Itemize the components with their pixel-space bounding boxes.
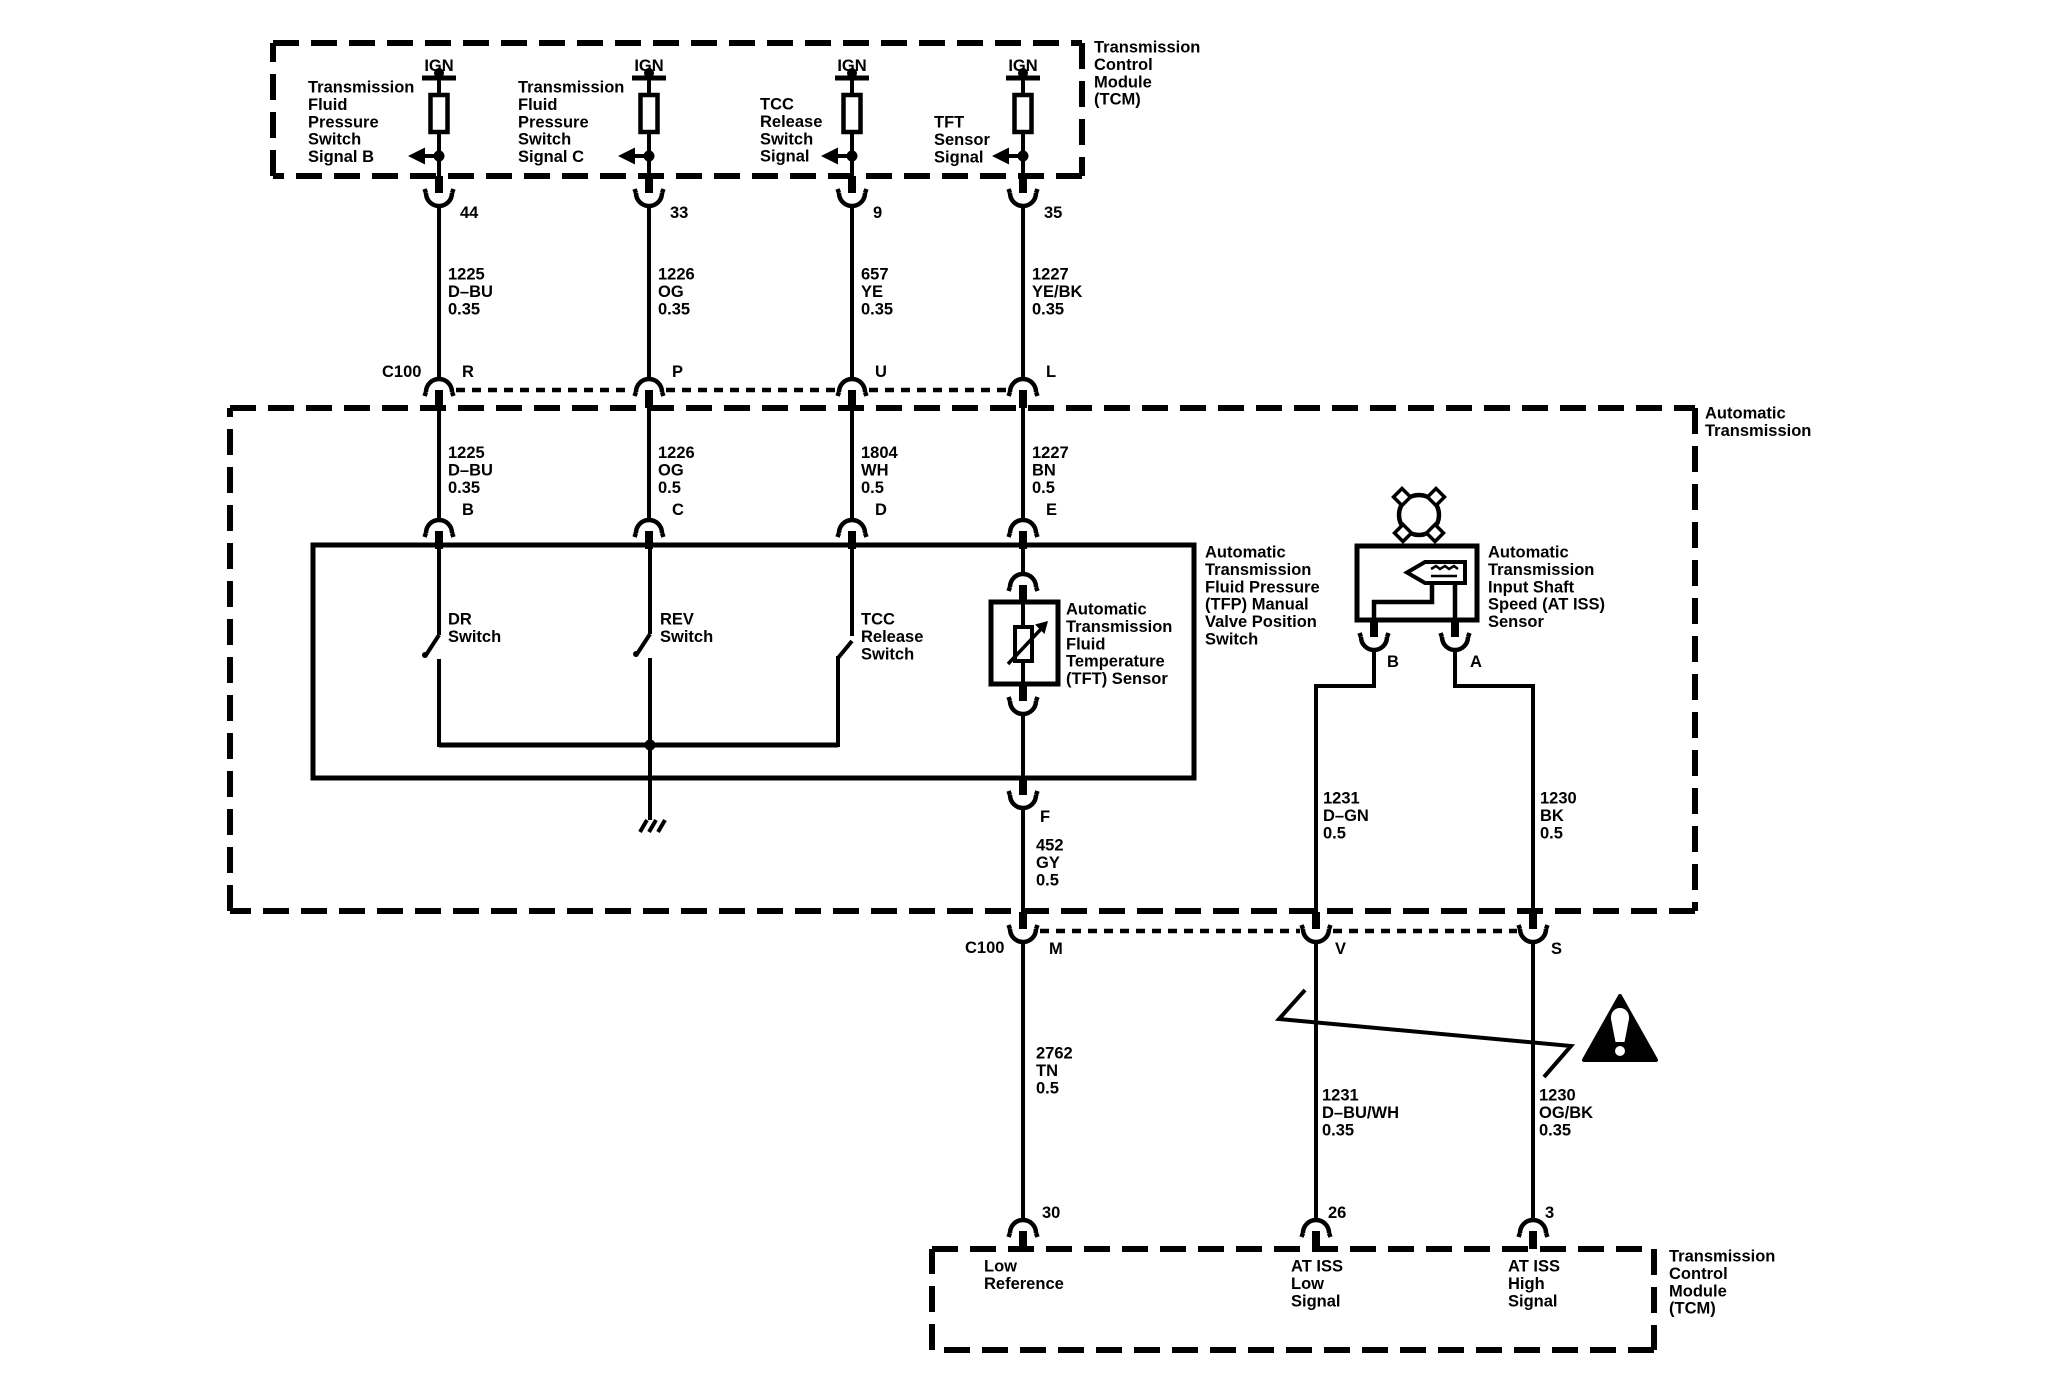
svg-text:P: P bbox=[672, 363, 683, 381]
svg-text:0.5: 0.5 bbox=[658, 479, 681, 497]
wire TCC switch to bus bbox=[836, 656, 840, 747]
svg-text:1230: 1230 bbox=[1539, 1087, 1576, 1105]
C100 harness dotted line (upper) bbox=[456, 388, 632, 393]
svg-text:0.35: 0.35 bbox=[861, 300, 893, 318]
svg-text:Control: Control bbox=[1094, 56, 1153, 74]
svg-text:Signal: Signal bbox=[934, 148, 984, 166]
resistor (pull-up, column 1) bbox=[431, 95, 448, 132]
svg-text:0.35: 0.35 bbox=[448, 479, 480, 497]
svg-text:Switch: Switch bbox=[861, 645, 914, 663]
svg-text:Switch: Switch bbox=[308, 131, 361, 149]
Transmission Control Module (TCM) box (top) bbox=[273, 43, 1082, 176]
TFT sensor lower connector bbox=[1019, 684, 1027, 701]
svg-text:GY: GY bbox=[1036, 854, 1060, 872]
svg-text:OG: OG bbox=[658, 283, 684, 301]
svg-text:Transmission: Transmission bbox=[308, 79, 414, 97]
svg-text:1231: 1231 bbox=[1323, 790, 1360, 808]
svg-text:Switch: Switch bbox=[448, 628, 501, 646]
svg-text:1225: 1225 bbox=[448, 266, 485, 284]
TFP switch signal C arrow bbox=[644, 151, 655, 162]
TFT sensor internal wire bbox=[1021, 602, 1025, 684]
REV switch bbox=[648, 547, 652, 634]
svg-text:9: 9 bbox=[873, 204, 882, 222]
wire IGN to resistor (column 4) bbox=[1021, 73, 1025, 95]
svg-text:1231: 1231 bbox=[1322, 1087, 1359, 1105]
IGN feed node (column 2) bbox=[644, 68, 654, 78]
svg-text:R: R bbox=[462, 363, 474, 381]
svg-text:A: A bbox=[1470, 653, 1482, 671]
svg-text:C100: C100 bbox=[382, 363, 421, 381]
svg-text:Signal: Signal bbox=[1291, 1292, 1341, 1310]
wire IGN to resistor (column 2) bbox=[647, 73, 651, 95]
wire C100 S to TCM pin 3 bbox=[1531, 942, 1535, 1220]
TCM pin 33 connector bbox=[645, 176, 653, 193]
IGN feed node (column 4) bbox=[1018, 68, 1028, 78]
svg-text:(TCM): (TCM) bbox=[1669, 1300, 1716, 1318]
svg-text:D–BU: D–BU bbox=[448, 283, 493, 301]
svg-text:1225: 1225 bbox=[448, 444, 485, 462]
svg-text:Sensor: Sensor bbox=[1488, 613, 1545, 631]
ground bbox=[640, 820, 665, 832]
svg-text:D: D bbox=[875, 501, 887, 519]
svg-text:Signal C: Signal C bbox=[518, 148, 584, 166]
Automatic Transmission box (dashed) bbox=[230, 408, 1695, 911]
svg-text:35: 35 bbox=[1044, 204, 1062, 222]
svg-text:AT ISS: AT ISS bbox=[1508, 1258, 1560, 1276]
twisted pair marker bbox=[1279, 990, 1571, 1077]
wire pin E to TFT sensor bbox=[1021, 547, 1025, 574]
svg-text:OG/BK: OG/BK bbox=[1539, 1104, 1593, 1122]
svg-text:Switch: Switch bbox=[1205, 631, 1258, 649]
wire pin 35 to C100 bbox=[1021, 205, 1025, 379]
TFP pin F connector bbox=[1019, 778, 1027, 795]
TFP switch signal B arrow bbox=[434, 151, 445, 162]
svg-text:YE/BK: YE/BK bbox=[1032, 283, 1083, 301]
svg-text:Module: Module bbox=[1669, 1282, 1727, 1300]
svg-text:0.5: 0.5 bbox=[1540, 824, 1563, 842]
wire C100 V to TCM pin 26 bbox=[1314, 942, 1318, 1220]
svg-text:Transmission: Transmission bbox=[1066, 618, 1172, 636]
C100 pin V connector bbox=[1312, 912, 1320, 929]
wire C100 U to pin D bbox=[850, 407, 854, 521]
TCM pin 26 connector bbox=[1303, 1220, 1329, 1233]
svg-text:Signal: Signal bbox=[1508, 1292, 1558, 1310]
svg-text:F: F bbox=[1040, 808, 1050, 826]
C100 harness dotted line (lower) bbox=[1040, 929, 1300, 934]
svg-text:Transmission: Transmission bbox=[1669, 1248, 1775, 1266]
svg-text:Transmission: Transmission bbox=[1488, 561, 1594, 579]
switch common bus wire bbox=[439, 743, 838, 748]
TFP pin C connector bbox=[636, 520, 662, 533]
svg-text:Switch: Switch bbox=[518, 131, 571, 149]
svg-text:Pressure: Pressure bbox=[308, 113, 379, 131]
svg-text:1226: 1226 bbox=[658, 266, 695, 284]
svg-text:Module: Module bbox=[1094, 73, 1152, 91]
C100 pin S connector bbox=[1529, 912, 1537, 929]
AT ISS pickup tag bbox=[1407, 562, 1465, 583]
svg-text:D–BU/WH: D–BU/WH bbox=[1322, 1104, 1399, 1122]
svg-text:26: 26 bbox=[1328, 1204, 1346, 1222]
svg-text:Valve Position: Valve Position bbox=[1205, 613, 1317, 631]
resistor (pull-up, column 4) bbox=[1015, 95, 1032, 132]
svg-text:Fluid: Fluid bbox=[308, 96, 347, 114]
svg-text:33: 33 bbox=[670, 204, 688, 222]
C100 pin P connector bbox=[636, 379, 662, 392]
svg-text:(TFP) Manual: (TFP) Manual bbox=[1205, 596, 1309, 614]
svg-text:Transmission: Transmission bbox=[518, 79, 624, 97]
svg-text:Transmission: Transmission bbox=[1705, 422, 1811, 440]
wire C100 P to pin C bbox=[647, 407, 651, 521]
AT ISS sensor box bbox=[1357, 546, 1477, 620]
svg-text:Switch: Switch bbox=[660, 628, 713, 646]
svg-text:Automatic: Automatic bbox=[1488, 544, 1569, 562]
TFP pin E connector bbox=[1010, 520, 1036, 533]
svg-text:M: M bbox=[1049, 940, 1063, 958]
svg-text:657: 657 bbox=[861, 266, 889, 284]
svg-text:0.35: 0.35 bbox=[1322, 1121, 1354, 1139]
svg-text:B: B bbox=[462, 501, 474, 519]
svg-text:Input Shaft: Input Shaft bbox=[1488, 578, 1575, 596]
svg-text:0.5: 0.5 bbox=[1032, 479, 1055, 497]
IGN feed node (column 1) bbox=[434, 68, 444, 78]
svg-text:Sensor: Sensor bbox=[934, 131, 991, 149]
svg-text:0.35: 0.35 bbox=[1032, 300, 1064, 318]
svg-text:(TCM): (TCM) bbox=[1094, 91, 1141, 109]
svg-text:Automatic: Automatic bbox=[1066, 601, 1147, 619]
C100 pin U connector bbox=[839, 379, 865, 392]
svg-text:3: 3 bbox=[1545, 1204, 1554, 1222]
TFT sensor box bbox=[991, 602, 1058, 684]
svg-text:C: C bbox=[672, 501, 684, 519]
wire REV switch to bus and ground bbox=[648, 658, 652, 820]
svg-text:1227: 1227 bbox=[1032, 266, 1069, 284]
svg-text:Transmission: Transmission bbox=[1094, 39, 1200, 57]
svg-text:Reference: Reference bbox=[984, 1275, 1064, 1293]
TCM pin 35 connector bbox=[1019, 176, 1027, 193]
svg-text:YE: YE bbox=[861, 283, 883, 301]
svg-text:1226: 1226 bbox=[658, 444, 695, 462]
svg-text:0.5: 0.5 bbox=[861, 479, 884, 497]
resistor (pull-up, column 2) bbox=[641, 95, 658, 132]
Transmission Control Module (TCM) box (bottom) bbox=[932, 1249, 1654, 1350]
TCM pin 9 connector bbox=[848, 176, 856, 193]
svg-text:1230: 1230 bbox=[1540, 790, 1577, 808]
resistor (pull-up, column 3) bbox=[844, 95, 861, 132]
wire pin 9 to C100 bbox=[850, 205, 854, 379]
wire C100 M to TCM pin 30 bbox=[1021, 942, 1025, 1220]
wire AT ISS B to C100 V bbox=[1316, 650, 1374, 912]
svg-text:D–BU: D–BU bbox=[448, 461, 493, 479]
wire DR switch to bus bbox=[437, 659, 441, 747]
TFT variable arrow bbox=[1008, 628, 1042, 664]
TFP pin B connector bbox=[426, 520, 452, 533]
C100 pin R connector bbox=[426, 379, 452, 392]
svg-text:1227: 1227 bbox=[1032, 444, 1069, 462]
svg-text:Signal B: Signal B bbox=[308, 148, 374, 166]
wire AT ISS A to C100 S bbox=[1455, 650, 1533, 912]
wire pin F to C100 M bbox=[1021, 808, 1025, 912]
svg-text:Automatic: Automatic bbox=[1705, 405, 1786, 423]
TFT thermistor element bbox=[1015, 627, 1032, 661]
svg-text:Fluid Pressure: Fluid Pressure bbox=[1205, 578, 1320, 596]
svg-text:U: U bbox=[875, 363, 887, 381]
wire C100 R to pin B bbox=[437, 407, 441, 521]
svg-text:Pressure: Pressure bbox=[518, 113, 589, 131]
svg-text:S: S bbox=[1551, 940, 1562, 958]
wire C100 L to pin E bbox=[1021, 407, 1025, 521]
svg-text:L: L bbox=[1046, 363, 1056, 381]
wire TFT sensor to TFP box edge bbox=[1021, 714, 1025, 778]
svg-text:V: V bbox=[1335, 940, 1346, 958]
svg-text:0.35: 0.35 bbox=[1539, 1121, 1571, 1139]
svg-text:452: 452 bbox=[1036, 837, 1064, 855]
svg-text:OG: OG bbox=[658, 461, 684, 479]
svg-text:Release: Release bbox=[760, 113, 822, 131]
svg-text:0.5: 0.5 bbox=[1036, 1079, 1059, 1097]
svg-text:D–GN: D–GN bbox=[1323, 807, 1369, 825]
svg-text:Control: Control bbox=[1669, 1265, 1728, 1283]
TCM pin 44 connector bbox=[435, 176, 443, 193]
svg-text:0.35: 0.35 bbox=[658, 300, 690, 318]
C100 pin M connector bbox=[1019, 912, 1027, 929]
wire resistor to junction (column 4) bbox=[1021, 132, 1025, 176]
svg-text:Fluid: Fluid bbox=[1066, 635, 1105, 653]
wire pin 33 to C100 bbox=[647, 205, 651, 379]
TCC Release Switch bbox=[850, 547, 854, 636]
TFT sensor signal arrow bbox=[1018, 151, 1029, 162]
svg-text:0.5: 0.5 bbox=[1036, 871, 1059, 889]
TFP pin D connector bbox=[839, 520, 865, 533]
DR switch bbox=[437, 547, 441, 635]
TCC release switch signal arrow bbox=[847, 151, 858, 162]
wire IGN to resistor (column 3) bbox=[850, 73, 854, 95]
svg-text:TCC: TCC bbox=[861, 611, 895, 629]
svg-text:Fluid: Fluid bbox=[518, 96, 557, 114]
TFP Manual Valve Position Switch box bbox=[313, 545, 1194, 778]
AT ISS internal wires bbox=[1374, 583, 1455, 620]
svg-text:TCC: TCC bbox=[760, 96, 794, 114]
wire resistor to junction (column 1) bbox=[437, 132, 441, 176]
svg-text:0.5: 0.5 bbox=[1323, 824, 1346, 842]
svg-text:E: E bbox=[1046, 501, 1057, 519]
bus junction node bbox=[645, 740, 656, 751]
svg-text:C100: C100 bbox=[965, 939, 1004, 957]
wire pin 44 to C100 bbox=[437, 205, 441, 379]
svg-text:DR: DR bbox=[448, 611, 472, 629]
svg-text:(TFT) Sensor: (TFT) Sensor bbox=[1066, 670, 1168, 688]
svg-text:Automatic: Automatic bbox=[1205, 544, 1286, 562]
svg-text:0.35: 0.35 bbox=[448, 300, 480, 318]
svg-text:B: B bbox=[1387, 653, 1399, 671]
AT ISS pin A connector bbox=[1451, 620, 1459, 637]
wire resistor to junction (column 3) bbox=[850, 132, 854, 176]
svg-text:Transmission: Transmission bbox=[1205, 561, 1311, 579]
svg-text:Low: Low bbox=[1291, 1275, 1324, 1293]
C100 pin L connector bbox=[1010, 379, 1036, 392]
svg-text:Release: Release bbox=[861, 628, 923, 646]
svg-text:Switch: Switch bbox=[760, 130, 813, 148]
svg-text:REV: REV bbox=[660, 611, 694, 629]
AT ISS sensor rotor symbol bbox=[1399, 495, 1439, 535]
wire IGN to resistor (column 1) bbox=[437, 73, 441, 95]
svg-text:TFT: TFT bbox=[934, 114, 964, 132]
svg-text:Speed (AT ISS): Speed (AT ISS) bbox=[1488, 596, 1605, 614]
svg-text:44: 44 bbox=[460, 204, 479, 222]
wire resistor to junction (column 2) bbox=[647, 132, 651, 176]
TCM pin 30 connector bbox=[1010, 1220, 1036, 1233]
IGN feed node (column 3) bbox=[847, 68, 857, 78]
svg-text:Low: Low bbox=[984, 1258, 1017, 1276]
svg-text:WH: WH bbox=[861, 461, 889, 479]
svg-text:1804: 1804 bbox=[861, 444, 899, 462]
svg-text:Signal: Signal bbox=[760, 148, 810, 166]
warning symbol bbox=[1584, 996, 1656, 1060]
AT ISS pin B connector bbox=[1370, 620, 1378, 637]
TCM pin 3 connector bbox=[1520, 1220, 1546, 1233]
svg-text:BK: BK bbox=[1540, 807, 1564, 825]
svg-text:High: High bbox=[1508, 1275, 1545, 1293]
svg-text:TN: TN bbox=[1036, 1062, 1058, 1080]
svg-text:BN: BN bbox=[1032, 461, 1056, 479]
svg-text:AT ISS: AT ISS bbox=[1291, 1258, 1343, 1276]
svg-text:30: 30 bbox=[1042, 1204, 1060, 1222]
svg-text:Temperature: Temperature bbox=[1066, 653, 1165, 671]
svg-text:2762: 2762 bbox=[1036, 1045, 1073, 1063]
TFT sensor upper connector bbox=[1010, 574, 1036, 587]
